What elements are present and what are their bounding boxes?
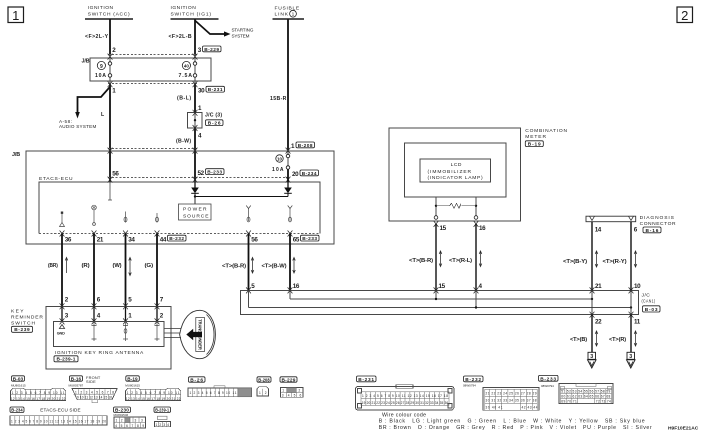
- CAN bus line 2: [249, 290, 633, 308]
- chevrons at CAN box bottom: [590, 312, 634, 318]
- svg-text:SWITCH (IG1): SWITCH (IG1): [171, 11, 212, 17]
- sheet number 2 box: [677, 7, 693, 23]
- svg-text:(B-W): (B-W): [176, 138, 191, 144]
- J/B main box around ETACS: [12, 151, 334, 244]
- svg-text:12 13 14 15 16 17 18 19 20 21: 12 13 14 15 16 17 18 19 20 21 22: [11, 397, 66, 401]
- connector B-234 pinout: [10, 407, 107, 425]
- svg-text:J/B: J/B: [12, 152, 20, 158]
- pin 52 connector B-233 top of ETACS: [198, 169, 225, 177]
- svg-text:FUSIBLE: FUSIBLE: [275, 5, 300, 11]
- POWER SOURCE box: [179, 204, 212, 220]
- svg-text:1 2 3 4 5 6 7 8 9 10 11 12 13: 1 2 3 4 5 6 7 8 9 10 11 12 13 14 15 16 1…: [362, 394, 448, 398]
- pin 3 connector B-229: [198, 46, 221, 54]
- dashed line at ETACS top: [108, 177, 290, 179]
- wire: fusible link 15B-R vertical: [287, 20, 289, 151]
- svg-text:52: 52: [198, 170, 205, 177]
- connector B-16 pinout: [69, 375, 118, 403]
- svg-text:SWITCH (ACC): SWITCH (ACC): [88, 11, 130, 17]
- svg-text:B-16: B-16: [646, 228, 659, 234]
- internal symbol pin 21: [92, 205, 97, 225]
- antenna inner box: [54, 321, 164, 346]
- chevrons below meter: [434, 221, 479, 227]
- sheet number 1 box: [8, 7, 24, 23]
- svg-text:B-16: B-16: [71, 376, 82, 382]
- connector B-19 pinout: [125, 376, 180, 401]
- J/B fuse box (top): [82, 55, 212, 84]
- wire W from pin34: [125, 234, 127, 307]
- svg-text:<F>2L-B: <F>2L-B: [169, 34, 192, 40]
- svg-text:STARTING: STARTING: [232, 28, 254, 33]
- svg-text:08W0794: 08W0794: [541, 384, 554, 388]
- svg-text:DIAGNOSIS: DIAGNOSIS: [640, 215, 675, 221]
- svg-text:<T>(B-Y): <T>(B-Y): [563, 259, 587, 265]
- svg-text:REMINDER: REMINDER: [11, 315, 43, 321]
- wire B-Y from diagnosis: [591, 222, 593, 291]
- svg-text:(W): (W): [113, 263, 122, 269]
- svg-text:IGNITION KEY RING ANTENNA: IGNITION KEY RING ANTENNA: [55, 350, 144, 356]
- svg-text:1 2 3 4 5 6 7 8 9 10 11: 1 2 3 4 5 6 7 8 9 10 11: [127, 391, 180, 395]
- label IGNITION SWITCH (ACC): [85, 5, 133, 19]
- svg-text:20: 20: [292, 171, 299, 178]
- svg-text:(R): (R): [82, 263, 90, 269]
- svg-text:H9F10E21AC: H9F10E21AC: [668, 425, 699, 431]
- svg-text:B-19: B-19: [127, 376, 138, 382]
- wires into antenna box: [62, 307, 157, 322]
- chevrons at J/B top crossings: [108, 148, 291, 154]
- svg-text:56: 56: [112, 170, 119, 177]
- svg-text:65: 65: [293, 236, 300, 243]
- wire G from pin44: [156, 234, 158, 307]
- svg-text:SOURCE: SOURCE: [183, 213, 209, 219]
- svg-text:B-239-1: B-239-1: [57, 357, 76, 363]
- svg-text:B-03: B-03: [645, 307, 658, 313]
- svg-text:39 40 41: 39 40 41: [486, 406, 503, 410]
- svg-text:1: 1: [292, 12, 295, 18]
- twist arrows diagnosis wires: [595, 251, 598, 267]
- svg-text:72 73 74: 72 73 74: [596, 400, 611, 404]
- svg-text:ETACS-ECU: ETACS-ECU: [39, 176, 73, 182]
- coil symbol pin4: [92, 322, 97, 341]
- wire colour code legend: [379, 413, 652, 431]
- svg-text:36: 36: [65, 236, 72, 243]
- svg-text:B : Black LG : Light green: B : Black LG : Light green G : Green L :…: [379, 419, 645, 425]
- svg-text:MU801615: MU801615: [125, 383, 140, 387]
- ground + GND label inside: [57, 325, 65, 336]
- svg-text:51 52 53 54 55 56 57 58 59: 51 52 53 54 55 56 57 58 59: [561, 390, 610, 394]
- svg-text:B-234: B-234: [11, 408, 23, 414]
- svg-text:AUDIO SYSTEM: AUDIO SYSTEM: [59, 124, 96, 129]
- wire branch to starting system: [195, 21, 254, 39]
- svg-text:J/C: J/C: [642, 293, 651, 299]
- svg-text:SYSTEM: SYSTEM: [232, 33, 250, 38]
- KEY REMINDER SWITCH label B-239: [11, 309, 43, 334]
- svg-text:<T>(R-L): <T>(R-L): [449, 258, 472, 264]
- svg-text:19 20 21 22 23 24 25 26 27 28: 19 20 21 22 23 24 25 26 27 28 29 30 31 3…: [362, 401, 449, 405]
- svg-text:(INDICATOR LAMP): (INDICATOR LAMP): [428, 175, 483, 181]
- svg-text:10: 10: [634, 283, 641, 290]
- connector B-231 pinout: [356, 376, 455, 410]
- svg-text:1: 1: [282, 389, 284, 393]
- COMBINATION METER box: [389, 128, 521, 221]
- svg-text:7.5A: 7.5A: [179, 73, 193, 79]
- svg-text:SWITCH: SWITCH: [11, 320, 36, 326]
- svg-text:1: 1: [259, 391, 261, 395]
- pin 65 connector B-233: [293, 235, 319, 243]
- dashed line at ETACS bottom: [39, 233, 320, 235]
- svg-text:(G): (G): [145, 263, 154, 269]
- svg-text:69 70 71: 69 70 71: [561, 400, 577, 404]
- chevrons at key switch box top: [60, 303, 160, 309]
- J/C (3) joint connector B-26: [188, 110, 224, 131]
- svg-text:12 13 14 15 16 17 18 19 20 21: 12 13 14 15 16 17 18 19 20 21 22: [126, 397, 181, 401]
- wire branch to audio system A-58: [59, 87, 110, 129]
- svg-text:22: 22: [595, 319, 602, 326]
- pin 30 connector B-231: [198, 86, 225, 94]
- wire R from pin21: [93, 234, 95, 307]
- wire R-L from meter: [475, 224, 477, 290]
- svg-text:MU801546: MU801546: [114, 413, 129, 417]
- svg-text:ETACS-ECU SIDE: ETACS-ECU SIDE: [40, 408, 81, 413]
- fuse 9 10A: [95, 61, 112, 79]
- connector B-208 pinout: [257, 377, 271, 396]
- chevrons at ETACS bottom crossings: [60, 231, 293, 237]
- svg-text:B-19: B-19: [528, 142, 541, 148]
- svg-text:11: 11: [634, 319, 641, 326]
- chevrons at fuse box top: [108, 54, 198, 60]
- svg-text:<T>(R): <T>(R): [609, 337, 626, 343]
- svg-text:B-233: B-233: [540, 376, 556, 382]
- svg-text:CONNECTOR: CONNECTOR: [640, 221, 676, 227]
- diode at pin 52: [191, 182, 199, 197]
- fuse 40 7.5A: [179, 61, 197, 79]
- connector B-26 pinout: [188, 377, 252, 397]
- svg-text:1 2 3 4: 1 2 3 4: [156, 423, 170, 427]
- wire: IG1 feed 2L-B vertical: [194, 20, 196, 55]
- internal symbol pin 65: [288, 206, 293, 222]
- svg-text:B-229: B-229: [204, 47, 219, 53]
- svg-text:21: 21: [595, 283, 602, 290]
- connector B-229 pinout: [280, 377, 303, 398]
- ETACS-ECU box: [39, 176, 320, 234]
- svg-text:10A: 10A: [95, 73, 106, 79]
- svg-text:LCD: LCD: [451, 162, 462, 168]
- twist arrow between BR/R: [65, 258, 68, 274]
- wire BR from pin36: [61, 234, 63, 307]
- svg-text:10A: 10A: [272, 167, 284, 173]
- wires 21-22 and 10-11 through CAN box: [591, 290, 593, 314]
- internal symbol pin 56b: [246, 206, 251, 222]
- svg-text:1 2 3 4 5 6 7 8 9 10 11 12 13: 1 2 3 4 5 6 7 8 9 10 11 12 13 14 15 16 1…: [11, 419, 106, 423]
- svg-text:LINK: LINK: [275, 12, 289, 18]
- svg-text:B-232: B-232: [465, 377, 481, 383]
- svg-text:B-208: B-208: [298, 143, 313, 149]
- chevrons at CAN box top: [246, 287, 633, 293]
- svg-text:3 4 5 6: 3 4 5 6: [282, 394, 302, 398]
- svg-text:30 31 32 33 34 35 36 37 38: 30 31 32 33 34 35 36 37 38: [486, 399, 537, 403]
- DIAGNOSIS CONNECTOR box: [586, 215, 676, 234]
- svg-text:B-231: B-231: [358, 377, 374, 383]
- svg-text:2: 2: [299, 389, 301, 393]
- svg-text:1: 1: [12, 8, 19, 23]
- svg-text:15: 15: [439, 283, 446, 290]
- svg-text:3: 3: [141, 419, 143, 423]
- wire from pin65 to J/C CAN1: [289, 234, 291, 291]
- svg-text:METER: METER: [525, 134, 546, 140]
- svg-text:B-239: B-239: [14, 327, 30, 333]
- coil symbol pin1: [123, 322, 128, 341]
- svg-text:B-229: B-229: [282, 377, 296, 383]
- svg-text:2: 2: [681, 8, 688, 23]
- svg-text:B-231: B-231: [208, 87, 223, 93]
- wire B-R from meter: [435, 224, 437, 290]
- svg-text:2: 2: [121, 419, 123, 423]
- svg-text:44: 44: [160, 236, 167, 243]
- key unit outer box: [46, 307, 171, 370]
- svg-text:<T>(R-Y): <T>(R-Y): [603, 259, 627, 265]
- svg-text:40: 40: [184, 64, 190, 69]
- wire B to datalink: [591, 315, 593, 352]
- svg-text:A-58:: A-58:: [59, 119, 72, 124]
- connector B-233 pinout: [539, 375, 614, 403]
- wire from pin56b to J/C CAN1: [248, 234, 250, 291]
- svg-text:GND: GND: [57, 331, 65, 335]
- svg-text:1 2 3 4 5 6 7 8 9 10 11: 1 2 3 4 5 6 7 8 9 10 11: [12, 391, 65, 395]
- svg-text:14: 14: [595, 227, 602, 234]
- svg-text:1 2 3 4 5 6 7 8 9 10 11: 1 2 3 4 5 6 7 8 9 10 11: [190, 391, 237, 395]
- twist arrows lower: [595, 331, 598, 346]
- svg-text:(CAN1): (CAN1): [642, 299, 656, 305]
- wire: ACC feed 2L-Y vertical: [109, 20, 111, 55]
- lamp resistor network: [434, 197, 478, 219]
- svg-text:(IMMOBILIZER: (IMMOBILIZER: [428, 169, 472, 175]
- coil symbol pin2: [155, 322, 160, 341]
- twist arrows meter wires: [439, 251, 442, 267]
- dashed line at J/B top: [108, 148, 197, 150]
- svg-text:30: 30: [198, 87, 205, 94]
- svg-text:COMBINATION: COMBINATION: [525, 128, 567, 134]
- svg-text:B-03: B-03: [13, 376, 24, 382]
- chevrons at antenna box top: [60, 318, 160, 324]
- pin 1 connector B-208: [291, 142, 315, 150]
- svg-text:3: 3: [590, 354, 593, 360]
- svg-text:B-234: B-234: [302, 171, 317, 177]
- svg-text:21 22 23 24 25 26 27 28 29: 21 22 23 24 25 26 27 28 29: [486, 392, 537, 396]
- svg-text:SIDE: SIDE: [86, 379, 96, 384]
- internal symbol pin 44: [156, 213, 159, 223]
- off-page connector 3 left: [588, 352, 597, 368]
- svg-text:9: 9: [100, 64, 103, 70]
- svg-text:1: 1: [116, 419, 118, 423]
- connector B-03 pinout: [11, 376, 66, 401]
- J/C (CAN1) box B-03: [240, 290, 660, 314]
- internal symbol pin 36 (ground): [60, 212, 65, 227]
- label COMBINATION METER B-19: [525, 128, 567, 148]
- svg-text:<T>(B-W): <T>(B-W): [262, 264, 287, 270]
- svg-text:MU803787: MU803787: [69, 383, 84, 387]
- svg-text:B-232: B-232: [169, 236, 184, 242]
- wire: fusible link continues into ETACS: [287, 169, 289, 182]
- svg-text:B-26: B-26: [190, 377, 203, 383]
- CAN bus line 1: [290, 290, 593, 300]
- wire joining diodes to power source: [194, 195, 288, 204]
- chevrons at ETACS top crossings: [108, 177, 291, 183]
- svg-text:B-233: B-233: [302, 236, 317, 242]
- internal stub pin56: [108, 182, 112, 200]
- svg-text:<T>(B-R): <T>(B-R): [409, 258, 433, 264]
- twist arrows: [251, 258, 254, 274]
- svg-text:2: 2: [265, 391, 267, 395]
- svg-text:IGNITION: IGNITION: [171, 5, 197, 11]
- svg-text:<T>(B-R): <T>(B-R): [222, 264, 246, 270]
- transponder key symbol: [165, 310, 216, 358]
- chevrons at fuse box bottom: [108, 81, 198, 87]
- svg-text:B-208: B-208: [258, 377, 270, 383]
- svg-text:56: 56: [251, 236, 258, 243]
- label IGNITION SWITCH (IG1): [171, 5, 219, 19]
- svg-text:<F>2L-Y: <F>2L-Y: [85, 34, 109, 40]
- svg-text:16: 16: [293, 283, 300, 290]
- svg-text:1 2 3 4 5 6 7 8: 1 2 3 4 5 6 7 8: [75, 390, 114, 394]
- svg-text:15B-R: 15B-R: [270, 96, 287, 102]
- wire R to datalink: [630, 315, 632, 352]
- svg-text:B-233: B-233: [207, 170, 222, 176]
- svg-text:(BR): (BR): [48, 263, 58, 269]
- svg-text:21: 21: [97, 236, 104, 243]
- svg-text:<T>(B): <T>(B): [570, 337, 587, 343]
- connector B-239-1 pinout: [154, 407, 171, 427]
- svg-text:16: 16: [479, 225, 486, 232]
- svg-text:BR : Brown O : Orange GR :: BR : Brown O : Orange GR : Grey R : Red …: [379, 425, 652, 431]
- svg-text:08W0794: 08W0794: [463, 384, 476, 388]
- diode at pin 20: [284, 182, 292, 197]
- internal symbol pin 34: [124, 212, 127, 223]
- svg-text:B-26: B-26: [208, 121, 221, 127]
- connector B-232 pinout: [463, 376, 539, 410]
- svg-text:(B-L): (B-L): [177, 96, 191, 102]
- twist arrow between W/G: [129, 258, 132, 276]
- connector B-230 pinout: [114, 407, 146, 428]
- svg-text:IGNITION: IGNITION: [88, 5, 114, 11]
- svg-text:3: 3: [629, 354, 632, 360]
- svg-text:POWER: POWER: [183, 207, 207, 213]
- svg-text:J/C (3): J/C (3): [205, 113, 222, 119]
- label FUSIBLE LINK 1: [273, 5, 305, 19]
- svg-text:3: 3: [135, 419, 137, 423]
- fuse 10 10A inside J/B: [272, 154, 290, 173]
- svg-text:34: 34: [128, 236, 135, 243]
- svg-text:9 10 11 12 13 14 15 16: 9 10 11 12 13 14 15 16: [77, 396, 112, 400]
- pin 44 connector B-232: [160, 235, 186, 243]
- svg-text:MU801615: MU801615: [11, 383, 26, 387]
- svg-text:42 43 44: 42 43 44: [522, 406, 538, 410]
- IGNITION KEY RING ANTENNA label B-239-1: [54, 350, 144, 363]
- svg-text:15: 15: [440, 225, 447, 232]
- svg-text:J/B: J/B: [82, 58, 90, 64]
- svg-text:KEY: KEY: [11, 309, 24, 315]
- wire R-Y from diagnosis: [630, 222, 632, 291]
- svg-text:60 61 62 63 64 65 66 67 68: 60 61 62 63 64 65 66 67 68: [561, 395, 610, 399]
- off-page connector 3 right: [627, 352, 636, 368]
- svg-text:10: 10: [277, 157, 282, 162]
- pin 20 connector B-234: [292, 170, 319, 178]
- svg-text:B-239-1: B-239-1: [155, 408, 169, 414]
